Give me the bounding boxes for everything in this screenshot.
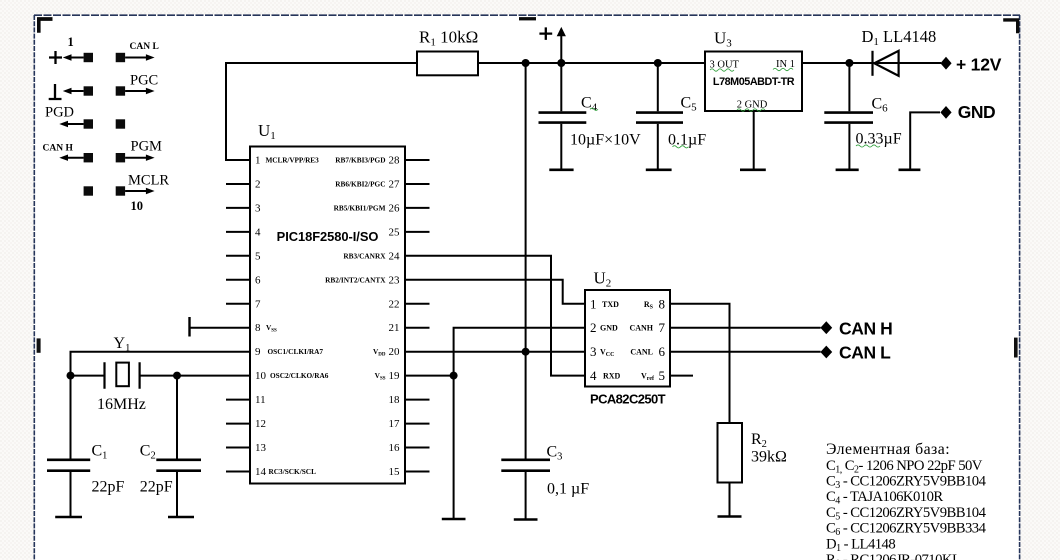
ground bar under C6 xyxy=(836,169,859,172)
U1 right pin labels xyxy=(325,156,386,382)
connector pad r5 left xyxy=(84,186,93,195)
arrow line r4 left xyxy=(67,157,84,159)
arrow line r2 right xyxy=(125,90,147,92)
capacitor C5 leads xyxy=(657,63,659,170)
left border handle mark xyxy=(37,338,41,352)
connector pad r5 right xyxy=(116,186,125,195)
capacitor C2 plates xyxy=(156,460,201,471)
arrow line r1 right xyxy=(125,57,147,59)
connector pad r2 right xyxy=(116,86,125,95)
svg-text:OSC1/CLKI/RA7: OSC1/CLKI/RA7 xyxy=(268,347,324,356)
ground bar under R2 xyxy=(718,515,742,518)
U3 regulator box xyxy=(705,52,802,112)
svg-text:2: 2 xyxy=(255,179,261,191)
svg-text:5: 5 xyxy=(659,368,666,383)
power arrow head xyxy=(557,27,566,36)
arrow head r1 left xyxy=(63,54,72,60)
svg-text:OSC2/CLKO/RA6: OSC2/CLKO/RA6 xyxy=(270,371,329,380)
svg-text:3: 3 xyxy=(255,202,261,214)
diode D1 xyxy=(873,51,899,76)
ground bar under C1 xyxy=(55,516,82,519)
svg-text:21: 21 xyxy=(389,322,400,334)
svg-text:D1 LL4148: D1 LL4148 xyxy=(862,27,937,48)
svg-text:MCLR/VPP/RE3: MCLR/VPP/RE3 xyxy=(266,156,320,165)
svg-text:GND: GND xyxy=(600,324,618,333)
terminal +12V diamond xyxy=(940,57,951,70)
arrow head r4 left xyxy=(59,155,68,161)
svg-text:RB3/CANRX: RB3/CANRX xyxy=(343,251,386,260)
arrow head r3 left xyxy=(59,121,68,127)
capacitor C6 leads xyxy=(848,63,850,170)
svg-text:PGC: PGC xyxy=(130,73,158,89)
junction node arrow/C4 xyxy=(557,59,565,67)
U2 box xyxy=(585,290,670,387)
svg-text:Элементная база:: Элементная база: xyxy=(826,441,950,458)
resistor R2 body xyxy=(718,423,743,483)
ground symbol r2 xyxy=(49,84,62,99)
pin10 wire to crystal xyxy=(140,375,250,377)
U1 left pin labels xyxy=(266,156,329,477)
junction node C6/D1 xyxy=(845,59,853,67)
power arrow up stem xyxy=(560,34,562,63)
svg-text:0,1 µF: 0,1 µF xyxy=(547,481,589,498)
svg-text:22pF: 22pF xyxy=(140,479,173,496)
U2 pin6 wire to CAN L xyxy=(670,351,821,353)
svg-text:R1 - RC1206JR-0710KL: R1 - RC1206JR-0710KL xyxy=(826,552,961,560)
svg-text:4: 4 xyxy=(255,226,261,238)
wire: U3 out through diode to +12V xyxy=(802,62,941,64)
R2 lower lead xyxy=(729,483,731,517)
svg-text:PCA82C250T: PCA82C250T xyxy=(590,392,666,407)
pin6 stub xyxy=(226,279,250,281)
svg-text:RB5/KBI1/PGM: RB5/KBI1/PGM xyxy=(334,203,386,212)
svg-text:3: 3 xyxy=(590,344,597,359)
pin8 gnd bar xyxy=(188,317,190,337)
U1 left pin numbers xyxy=(255,155,267,479)
U3 gnd pin lead xyxy=(753,111,755,169)
svg-text:22: 22 xyxy=(389,298,400,310)
capacitor C1 leads xyxy=(70,376,72,517)
svg-text:16: 16 xyxy=(389,442,401,454)
U2 left pin labels xyxy=(600,300,621,381)
svg-text:2: 2 xyxy=(590,320,597,335)
svg-text:R1 10kΩ: R1 10kΩ xyxy=(419,28,478,49)
svg-text:RB2/INT2/CANTX: RB2/INT2/CANTX xyxy=(325,275,386,284)
svg-text:13: 13 xyxy=(255,442,267,454)
crystal Y1 plates xyxy=(105,362,140,389)
wire: GND terminal to ground xyxy=(910,112,940,169)
resistor R1 body xyxy=(417,52,478,76)
pin20 VDD wire to U2 Vcc xyxy=(405,351,585,353)
svg-text:24: 24 xyxy=(389,250,401,262)
svg-text:7: 7 xyxy=(255,298,261,310)
svg-text:39kΩ: 39kΩ xyxy=(751,449,787,466)
svg-text:25: 25 xyxy=(389,226,401,238)
svg-text:CANL: CANL xyxy=(630,348,653,357)
connector pad r3 right xyxy=(116,119,125,128)
U2 left pin numbers xyxy=(590,296,597,383)
connector pad r4 right xyxy=(116,153,125,162)
squiggle under C6 value xyxy=(856,145,880,147)
svg-text:15: 15 xyxy=(389,466,401,478)
svg-text:20: 20 xyxy=(389,346,401,358)
svg-text:9: 9 xyxy=(255,346,261,358)
U2 pin7 wire to CAN H xyxy=(670,327,821,329)
pin3 stub xyxy=(226,207,250,209)
svg-text:RB7/KBI3/PGD: RB7/KBI3/PGD xyxy=(335,156,385,165)
svg-text:22pF: 22pF xyxy=(92,479,125,496)
svg-text:7: 7 xyxy=(659,320,666,335)
svg-text:3 OUT: 3 OUT xyxy=(710,60,740,71)
pin24 wire to U2 RXD xyxy=(405,256,585,376)
junction node B xyxy=(173,372,181,380)
svg-text:TXD: TXD xyxy=(602,300,619,309)
arrow line r1 left xyxy=(70,57,84,59)
ground bar under C3 xyxy=(514,518,538,521)
svg-text:6: 6 xyxy=(659,344,666,359)
pin21 stub xyxy=(405,327,430,329)
svg-text:RB6/KBI2/PGC: RB6/KBI2/PGC xyxy=(335,180,385,189)
svg-text:PGD: PGD xyxy=(45,105,74,121)
svg-text:18: 18 xyxy=(389,394,401,406)
svg-text:CAN H: CAN H xyxy=(43,144,74,154)
squiggle under C4 subscript xyxy=(590,108,598,110)
ground bar under C2 xyxy=(168,516,194,519)
ground bar below gnd line xyxy=(442,518,466,521)
capacitor C6 plates xyxy=(824,113,873,123)
svg-text:0.33µF: 0.33µF xyxy=(856,131,902,148)
squiggle under 3 OUT xyxy=(710,69,734,71)
wire: +5V vertical rail to VDD and C3 xyxy=(525,63,527,460)
pin17 stub xyxy=(405,423,430,425)
pin22 stub xyxy=(405,303,430,305)
stray black bar top center xyxy=(519,17,536,20)
junction node R1/rail xyxy=(522,59,530,67)
capacitor C3 lower lead xyxy=(525,472,527,520)
squiggle under IN 1 xyxy=(773,68,793,70)
selection dashed border left xyxy=(33,15,35,560)
svg-text:17: 17 xyxy=(389,418,401,430)
svg-text:27: 27 xyxy=(389,179,401,191)
svg-text:RC3/SCK/SCL: RC3/SCK/SCL xyxy=(269,467,317,476)
plus symbol r1 xyxy=(49,51,62,64)
capacitor C3 plates xyxy=(501,460,550,471)
svg-text:16MHz: 16MHz xyxy=(97,396,146,413)
svg-text:4: 4 xyxy=(590,368,597,383)
svg-text:PIC18F2580-I/SO: PIC18F2580-I/SO xyxy=(277,229,379,244)
svg-text:CAN L: CAN L xyxy=(839,343,891,363)
svg-text:8: 8 xyxy=(659,296,666,311)
svg-text:19: 19 xyxy=(389,370,401,382)
plus symbol near power arrow xyxy=(539,27,552,40)
pin14 stub xyxy=(226,471,250,473)
svg-text:6: 6 xyxy=(255,274,261,286)
arrow head r4 right xyxy=(146,155,155,161)
svg-text:RXD: RXD xyxy=(603,372,621,381)
svg-text:10: 10 xyxy=(255,370,267,382)
junction node A xyxy=(67,372,75,380)
svg-text:CAN H: CAN H xyxy=(839,318,892,338)
arrow line r3 left xyxy=(67,123,84,125)
ground bar under C5 xyxy=(646,169,672,172)
arrow head r2 left xyxy=(63,88,72,94)
capacitor C4 plates xyxy=(539,113,587,123)
U1 box xyxy=(250,147,405,484)
svg-text:CAN L: CAN L xyxy=(130,42,159,52)
capacitor C4 vertical leads xyxy=(560,63,562,170)
pin15 stub xyxy=(405,471,430,473)
pin12 stub xyxy=(226,423,250,425)
U2 right pin labels xyxy=(629,300,655,382)
capacitor C2 leads xyxy=(176,376,178,517)
ground bar under U3 xyxy=(740,169,766,172)
svg-text:10µF×10V: 10µF×10V xyxy=(570,132,641,149)
svg-text:28: 28 xyxy=(389,155,401,167)
svg-text:26: 26 xyxy=(389,202,401,214)
squiggle under C5 value xyxy=(673,146,689,148)
terminal GND diamond xyxy=(940,106,951,119)
pin18 stub xyxy=(405,399,430,401)
svg-text:1: 1 xyxy=(68,35,74,49)
connector pad r2 left xyxy=(84,86,93,95)
svg-text:PGM: PGM xyxy=(131,139,163,155)
junction node C5 xyxy=(654,59,662,67)
pin8 wire to gnd bar xyxy=(190,327,251,329)
arrow head r2 right xyxy=(146,88,155,94)
gnd wire from U2 pin2 down xyxy=(454,328,585,519)
arrow head r1 right xyxy=(146,54,155,60)
capacitor C1 plates xyxy=(47,460,90,471)
connector pad r1 left xyxy=(84,53,93,62)
arrow line r2 left xyxy=(70,90,84,92)
ground bar under GND wire xyxy=(899,169,921,172)
pin2 stub xyxy=(226,183,250,185)
junction node VDD/rail xyxy=(522,348,530,356)
crystal Y1 body xyxy=(116,363,129,387)
connector pad r4 left xyxy=(84,153,93,162)
selection dashed border top xyxy=(34,14,1020,16)
pin11 stub xyxy=(226,399,250,401)
pin7 stub xyxy=(226,303,250,305)
arrow line r4 right xyxy=(125,157,147,159)
U2 pin8 wire to R2 xyxy=(670,304,730,423)
junction node Vss/gnd line xyxy=(450,372,458,380)
connector pad r1 right xyxy=(116,53,125,62)
U2 pin5 stub xyxy=(670,375,693,377)
corner mark top-right xyxy=(1003,18,1019,33)
svg-text:10: 10 xyxy=(131,199,144,213)
svg-text:12: 12 xyxy=(255,418,266,430)
selection dashed border right xyxy=(1019,15,1021,560)
svg-text:+ 12V: + 12V xyxy=(956,54,1002,74)
svg-text:L78M05ABDT-TR: L78M05ABDT-TR xyxy=(713,76,795,88)
arrow line r5 right xyxy=(125,190,147,192)
pin13 stub xyxy=(226,447,250,449)
U1 right pin numbers xyxy=(389,155,401,479)
U2 right pin numbers xyxy=(659,296,666,383)
pin9 wire to crystal node A xyxy=(71,352,251,376)
corner mark top-left xyxy=(37,17,53,33)
right border handle mark xyxy=(1014,338,1018,358)
pin26 stub xyxy=(405,207,430,209)
ground bar under C4 xyxy=(549,169,573,172)
squiggle under 2 GND xyxy=(737,109,765,111)
pin27 stub xyxy=(405,183,430,185)
svg-text:11: 11 xyxy=(255,394,266,406)
svg-text:GND: GND xyxy=(958,102,995,122)
pin25 stub xyxy=(405,231,430,233)
svg-text:CANH: CANH xyxy=(629,324,653,333)
pin23 wire to U2 TXD xyxy=(405,280,585,304)
wire: pin1 MCLR to R1 xyxy=(226,63,417,160)
wire node A to crystal xyxy=(71,375,105,377)
terminal CAN H diamond xyxy=(820,321,832,334)
pin4 stub xyxy=(226,231,250,233)
pin5 stub xyxy=(226,255,250,257)
pin19 Vss wire xyxy=(405,375,454,377)
svg-text:8: 8 xyxy=(255,322,261,334)
capacitor C5 plates xyxy=(636,113,683,123)
svg-text:14: 14 xyxy=(255,466,267,478)
pin28 stub xyxy=(405,159,430,161)
wire: R1 to +5V rail xyxy=(478,62,705,64)
svg-text:1: 1 xyxy=(255,155,261,167)
connector pad r3 left xyxy=(84,119,93,128)
svg-text:23: 23 xyxy=(389,274,401,286)
svg-text:1: 1 xyxy=(590,296,597,311)
arrow head r5 right xyxy=(146,188,155,194)
pin16 stub xyxy=(405,447,430,449)
svg-text:5: 5 xyxy=(255,250,261,262)
svg-text:MCLR: MCLR xyxy=(128,173,169,189)
terminal CAN L diamond xyxy=(820,346,832,359)
